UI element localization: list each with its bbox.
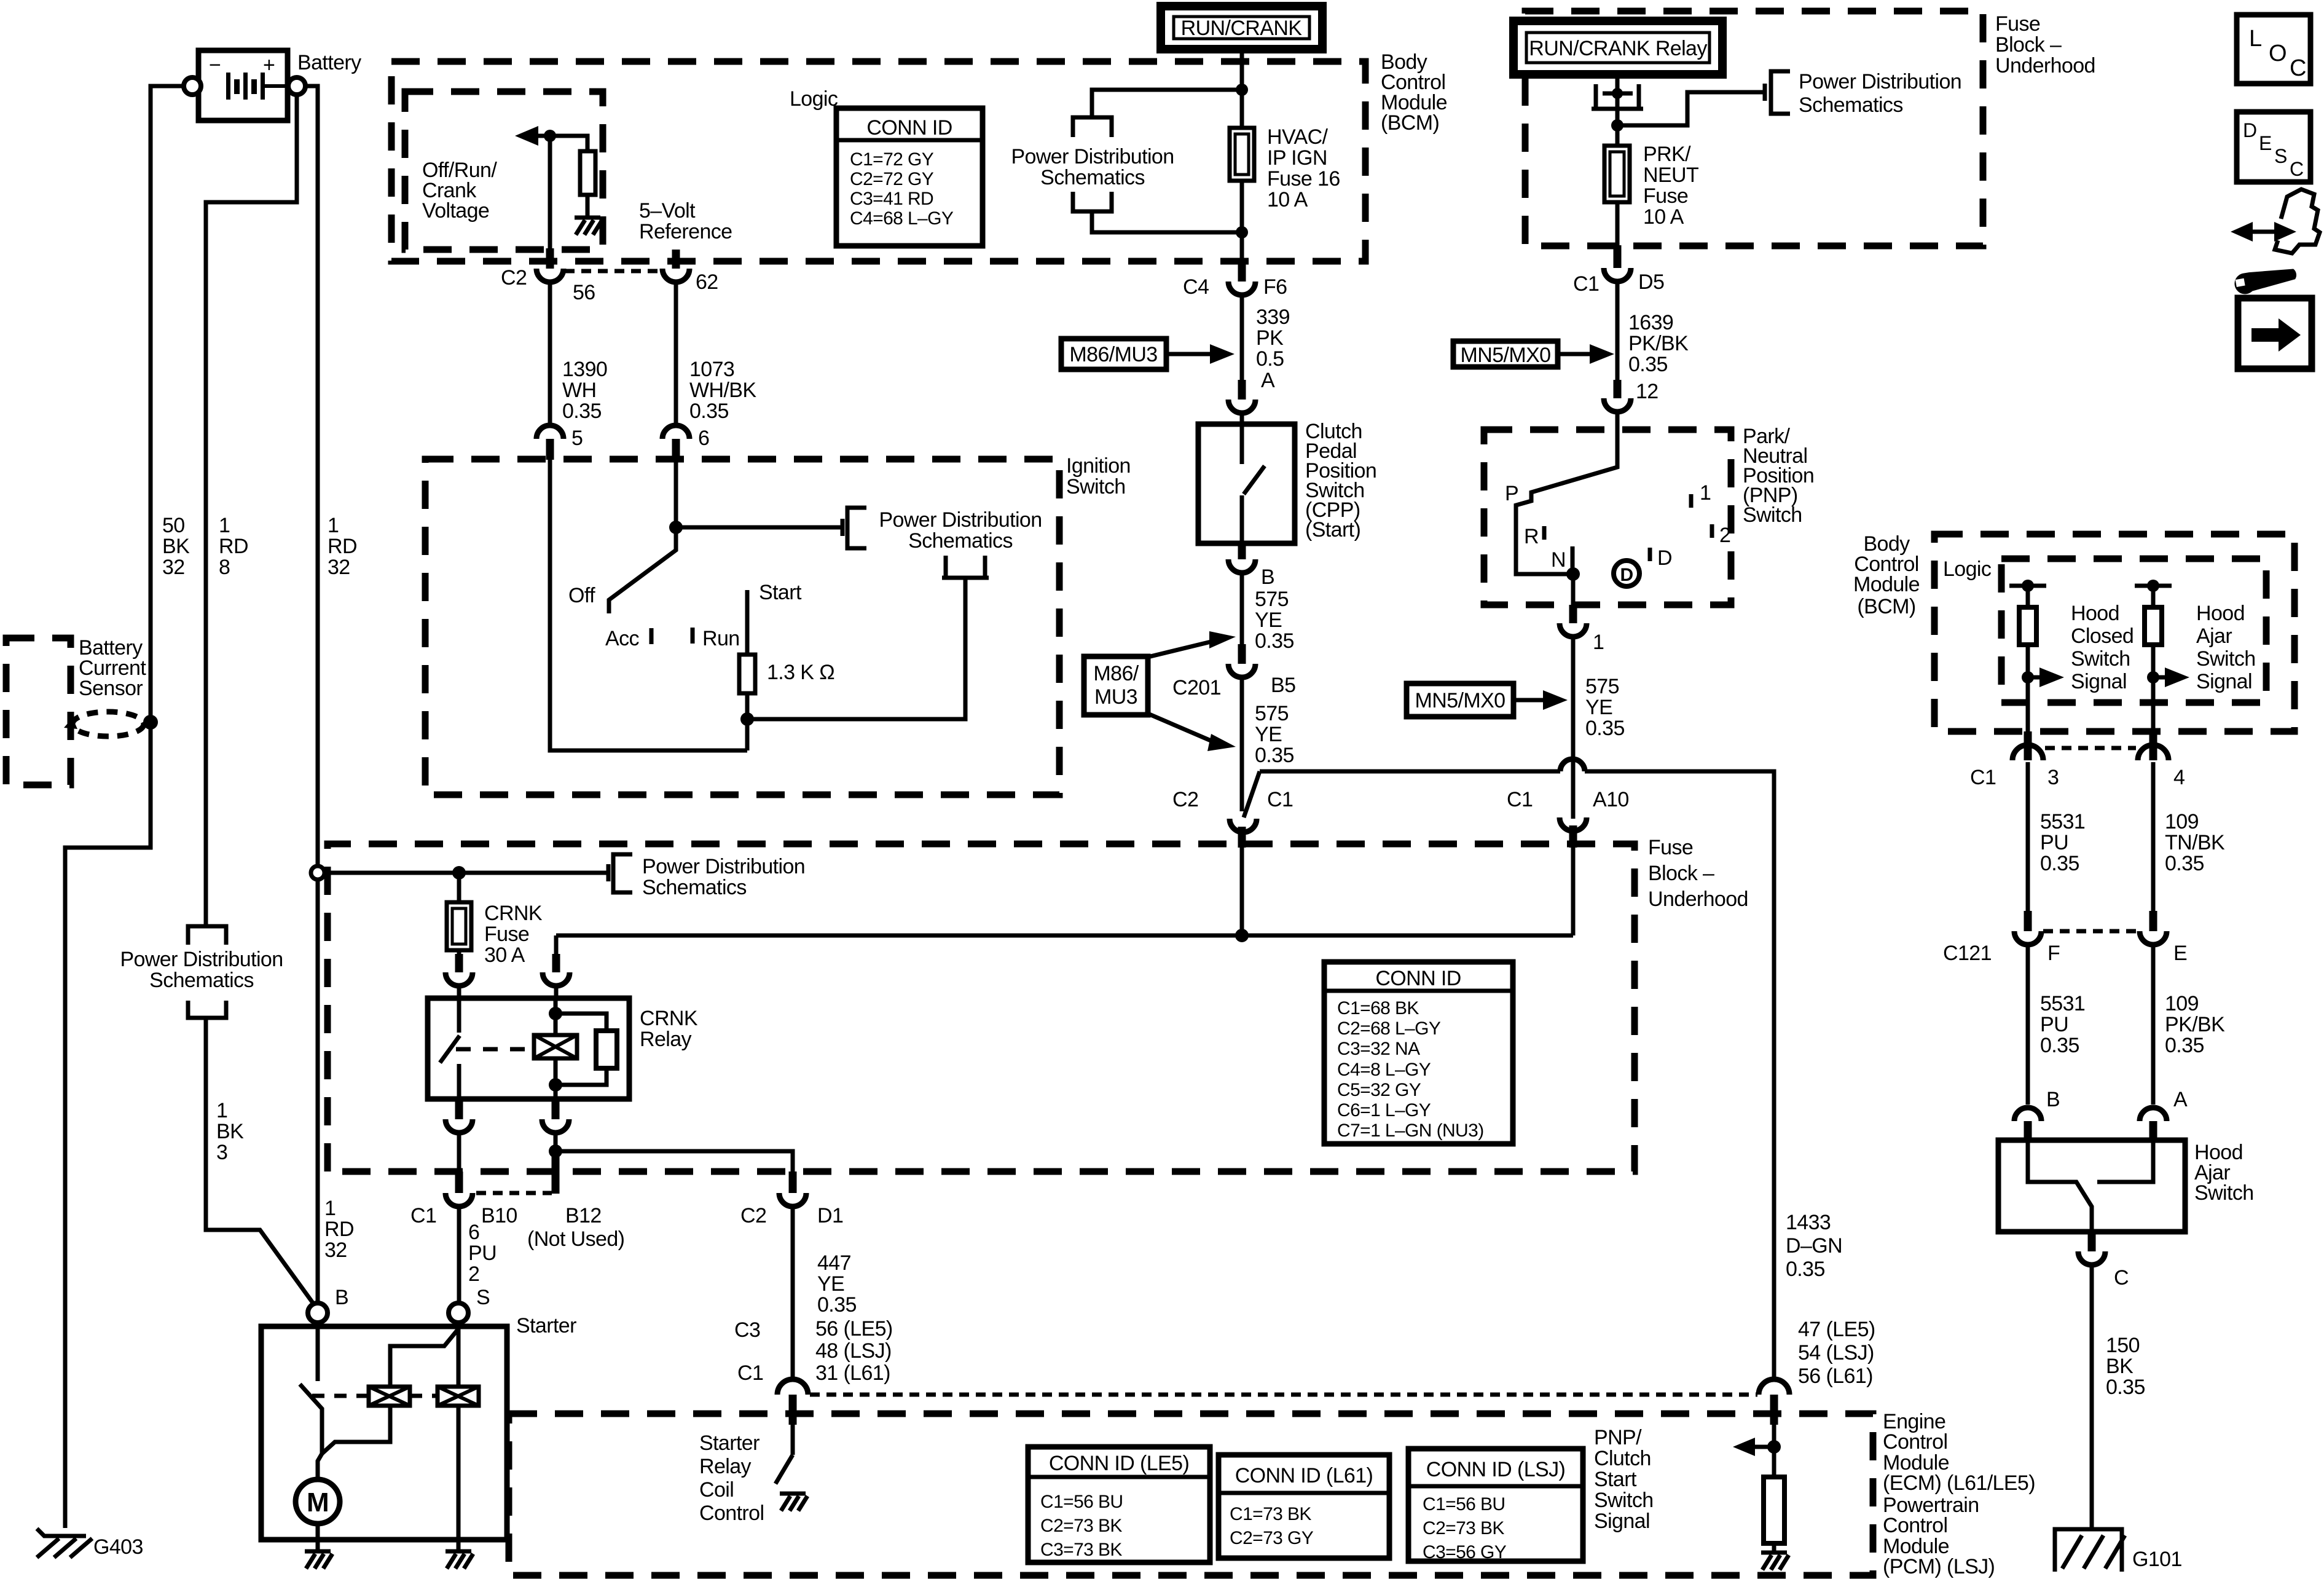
svg-text:575: 575	[1255, 588, 1289, 611]
svg-text:5531: 5531	[2040, 992, 2085, 1015]
svg-text:C1: C1	[1267, 788, 1293, 811]
svg-text:YE: YE	[817, 1272, 844, 1296]
table CONN ID LSJ	[1408, 1449, 1583, 1562]
svg-text:Start: Start	[759, 581, 802, 604]
wire relay coil feed bus	[556, 934, 1573, 938]
table CONN ID BCM	[836, 108, 983, 246]
svg-text:Starter: Starter	[699, 1431, 760, 1455]
relay CRNK actuator dashes	[456, 1047, 530, 1052]
icon LOC box	[2237, 15, 2310, 84]
power distribution schematics reference BCM	[1011, 90, 1242, 232]
svg-text:Start: Start	[1594, 1468, 1637, 1491]
svg-text:Relay: Relay	[699, 1455, 752, 1478]
arrow M86/MU3 to B5	[1148, 714, 1236, 751]
svg-text:E: E	[2259, 132, 2272, 154]
svg-text:Starter: Starter	[516, 1314, 576, 1337]
node relay coil top	[549, 1007, 562, 1020]
svg-text:1.3 K Ω: 1.3 K Ω	[767, 661, 834, 684]
contact Acc	[650, 628, 654, 644]
ground G101	[2055, 1529, 2125, 1572]
svg-text:C6=1 L–GY: C6=1 L–GY	[1337, 1100, 1431, 1120]
svg-text:F: F	[2047, 942, 2060, 965]
svg-text:C1: C1	[737, 1361, 763, 1385]
svg-text:C2=73 BK: C2=73 BK	[1423, 1518, 1504, 1538]
wire battery plus to starter B	[305, 86, 318, 1302]
svg-text:10 A: 10 A	[1267, 188, 1308, 211]
svg-text:PK: PK	[1256, 326, 1284, 350]
svg-text:Block –: Block –	[1995, 33, 2062, 57]
arrow M86/MU3 to B	[1148, 631, 1236, 657]
svg-text:Fuse: Fuse	[1648, 836, 1693, 859]
svg-text:MU3: MU3	[1094, 685, 1137, 709]
svg-text:6: 6	[698, 427, 709, 450]
svg-text:Control: Control	[1883, 1514, 1947, 1537]
svg-text:1: 1	[1593, 631, 1604, 654]
contact D	[1648, 548, 1652, 561]
svg-text:C4=8 L–GY: C4=8 L–GY	[1337, 1060, 1431, 1080]
ground 5 volt reference	[575, 218, 602, 235]
connector 62	[662, 250, 689, 282]
svg-text:C3=73 BK: C3=73 BK	[1040, 1540, 1122, 1560]
svg-text:C3: C3	[734, 1318, 760, 1342]
connector C2 C1	[1230, 819, 1257, 935]
svg-text:Power Distribution: Power Distribution	[879, 508, 1042, 532]
BCM logic inner box	[405, 92, 603, 250]
connector B cpp	[1228, 543, 1255, 644]
svg-text:C2=73 GY: C2=73 GY	[1230, 1528, 1314, 1548]
svg-text:Closed: Closed	[2071, 624, 2134, 648]
svg-text:E: E	[2173, 942, 2187, 965]
svg-text:BK: BK	[216, 1120, 244, 1143]
svg-text:2: 2	[1719, 524, 1730, 547]
svg-text:RD: RD	[328, 535, 357, 558]
svg-text:G101: G101	[2132, 1548, 2182, 1571]
dashed link B10 B12	[476, 1191, 552, 1195]
svg-text:NEUT: NEUT	[1643, 163, 1698, 187]
wire 1 BK 3	[206, 1018, 313, 1304]
svg-text:YE: YE	[1585, 696, 1612, 719]
svg-text:1639: 1639	[1628, 311, 1673, 334]
connector C hood	[2078, 1232, 2105, 1528]
stub B12 not used	[552, 1151, 560, 1194]
svg-text:M86/: M86/	[1093, 662, 1139, 685]
svg-text:BK: BK	[2106, 1355, 2134, 1378]
svg-text:1: 1	[328, 514, 339, 537]
resistor 5 volt reference	[550, 136, 595, 216]
svg-text:Hood: Hood	[2071, 602, 2119, 625]
svg-text:Module: Module	[1853, 573, 1920, 596]
svg-text:D5: D5	[1638, 270, 1664, 294]
svg-text:0.35: 0.35	[2165, 852, 2204, 875]
svg-text:R: R	[1524, 525, 1539, 548]
svg-text:RD: RD	[324, 1218, 354, 1241]
svg-text:RUN/CRANK: RUN/CRANK	[1181, 17, 1303, 40]
connector C121 E	[2140, 911, 2167, 1105]
power distribution schematics reference ignition	[842, 508, 1042, 578]
connector C1 4	[2138, 731, 2169, 911]
svg-text:Switch: Switch	[1594, 1489, 1654, 1512]
resistor hood ajar pullup	[2135, 580, 2172, 731]
svg-text:C1: C1	[1573, 272, 1599, 296]
svg-text:CONN ID (L61): CONN ID (L61)	[1235, 1464, 1373, 1487]
relay pictogram	[1592, 74, 1643, 125]
circled D indicator	[1614, 561, 1639, 586]
svg-text:2: 2	[468, 1262, 479, 1286]
svg-text:PNP/: PNP/	[1594, 1426, 1642, 1449]
dashed link F E	[2043, 929, 2138, 934]
svg-text:Voltage: Voltage	[422, 199, 489, 222]
svg-text:Signal: Signal	[1594, 1510, 1650, 1533]
wire diagonal to C2	[1244, 771, 1260, 817]
svg-text:C: C	[2114, 1266, 2129, 1290]
svg-text:Ignition: Ignition	[1066, 454, 1131, 478]
svg-text:5–Volt: 5–Volt	[639, 199, 696, 222]
power distribution schematics reference left	[120, 926, 283, 1018]
node junction logic	[544, 130, 556, 142]
svg-text:0.5: 0.5	[1256, 347, 1284, 371]
svg-text:31 (L61): 31 (L61)	[815, 1361, 890, 1385]
svg-text:50: 50	[162, 514, 185, 537]
svg-text:Run: Run	[702, 627, 740, 650]
node junction dot sensor	[143, 715, 158, 730]
ground ECM resistor	[1761, 1553, 1789, 1570]
svg-text:C1=56 BU: C1=56 BU	[1423, 1494, 1505, 1514]
dashed link 3 4	[2045, 746, 2136, 750]
svg-text:C4=68 L–GY: C4=68 L–GY	[850, 208, 954, 229]
svg-text:Power Distribution: Power Distribution	[120, 948, 283, 971]
svg-text:Switch: Switch	[1743, 503, 1802, 527]
wire motor to ground	[316, 1524, 320, 1550]
svg-text:Coil: Coil	[699, 1478, 734, 1502]
node junction PRK feed	[1611, 119, 1623, 132]
wire solenoid to ground	[457, 1406, 461, 1550]
svg-text:B: B	[335, 1286, 348, 1309]
svg-text:(Not Used): (Not Used)	[527, 1227, 624, 1251]
connector C121 F	[2014, 911, 2041, 1105]
svg-text:109: 109	[2165, 992, 2199, 1015]
svg-text:Switch: Switch	[2196, 647, 2256, 671]
svg-text:PRK/: PRK/	[1643, 143, 1691, 166]
svg-text:F6: F6	[1263, 275, 1287, 299]
svg-text:Schematics: Schematics	[1799, 93, 1903, 117]
wire resistor to PDS bracket	[747, 578, 965, 750]
icon arrow box	[2238, 298, 2312, 369]
relay CRNK K1 box	[428, 998, 629, 1099]
starter main contact	[300, 1323, 322, 1480]
svg-text:56: 56	[573, 281, 595, 304]
svg-text:C1: C1	[410, 1204, 436, 1227]
svg-text:Schematics: Schematics	[642, 876, 747, 899]
connector C1 D5	[1604, 245, 1631, 380]
svg-text:3: 3	[2047, 766, 2059, 789]
connector C1 A10	[1560, 817, 1587, 935]
svg-text:Power Distribution: Power Distribution	[642, 855, 805, 878]
svg-text:C201: C201	[1172, 676, 1221, 699]
starter motor M1	[296, 1479, 340, 1524]
arrow off run crank voltage	[515, 126, 550, 146]
connector C1 ECM left	[777, 1379, 808, 1455]
switch CPP box	[1198, 424, 1295, 543]
svg-text:D: D	[1620, 565, 1633, 585]
svg-text:48 (LSJ): 48 (LSJ)	[815, 1339, 892, 1363]
connector C1 ECM right	[1759, 1379, 1789, 1447]
BCM top box	[391, 61, 1365, 261]
svg-text:1: 1	[216, 1099, 227, 1122]
svg-text:B10: B10	[481, 1204, 517, 1227]
wire hop over pnp wire	[1560, 759, 1585, 771]
node junction bus C1	[1235, 929, 1249, 942]
wire coil output to D1	[555, 1151, 793, 1171]
svg-text:C1: C1	[1970, 766, 1996, 789]
svg-text:C2=72 GY: C2=72 GY	[850, 169, 934, 189]
svg-text:B12: B12	[565, 1204, 602, 1227]
svg-text:C1=56 BU: C1=56 BU	[1040, 1492, 1123, 1512]
svg-text:D1: D1	[817, 1204, 843, 1227]
svg-text:B: B	[2046, 1088, 2060, 1111]
svg-text:6: 6	[468, 1221, 479, 1244]
svg-text:0.35: 0.35	[2040, 1034, 2079, 1057]
node junction CRNK fuse	[452, 866, 466, 880]
svg-text:4: 4	[2173, 766, 2185, 789]
starter solenoid coil 2	[438, 1387, 479, 1406]
svg-text:M: M	[307, 1487, 329, 1518]
svg-text:Switch: Switch	[1066, 475, 1126, 498]
wire junction to PDS bracket	[676, 526, 842, 530]
svg-text:D–GN: D–GN	[1786, 1234, 1842, 1258]
svg-text:CRNK: CRNK	[484, 902, 543, 925]
svg-text:RD: RD	[219, 535, 248, 558]
starter solenoid feed from S	[390, 1323, 458, 1387]
svg-text:32: 32	[324, 1238, 347, 1262]
svg-text:MN5/MX0: MN5/MX0	[1461, 344, 1551, 367]
svg-text:B5: B5	[1271, 674, 1295, 697]
connector C1 3	[2012, 731, 2043, 911]
svg-text:P: P	[1505, 482, 1518, 505]
node junction coil output	[549, 1144, 562, 1158]
svg-text:IP IGN: IP IGN	[1267, 146, 1327, 170]
svg-text:(Start): (Start)	[1305, 518, 1360, 541]
ignition switch blade to Off	[609, 527, 676, 613]
svg-text:C2=68 L–GY: C2=68 L–GY	[1337, 1018, 1441, 1039]
RUN/CRANK Relay label box	[1513, 21, 1722, 74]
battery B+ box	[198, 50, 288, 120]
svg-text:C4: C4	[1183, 275, 1209, 299]
table CONN ID L61	[1219, 1455, 1389, 1558]
RUN/CRANK label box	[1161, 6, 1322, 49]
connector relay coil feed	[543, 935, 570, 998]
svg-text:Block –: Block –	[1648, 862, 1714, 885]
svg-text:Switch: Switch	[2194, 1181, 2254, 1205]
svg-text:12: 12	[1636, 380, 1659, 403]
fuse PRK NEUT 10A	[1604, 125, 1630, 245]
svg-text:30 A: 30 A	[484, 943, 525, 967]
svg-text:0.35: 0.35	[1585, 717, 1625, 740]
svg-text:YE: YE	[1255, 608, 1282, 632]
svg-text:S: S	[476, 1286, 490, 1309]
svg-text:56 (LE5): 56 (LE5)	[815, 1317, 893, 1341]
wire battery plus branch to power distribution	[206, 95, 297, 926]
svg-text:1390: 1390	[562, 358, 607, 381]
svg-text:(PCM) (LSJ): (PCM) (LSJ)	[1883, 1555, 1995, 1578]
svg-text:A: A	[2173, 1088, 2188, 1111]
svg-text:YE: YE	[1255, 723, 1282, 746]
svg-text:0.35: 0.35	[2040, 852, 2079, 875]
svg-text:C1: C1	[1507, 788, 1533, 811]
connector relay coil output	[542, 1100, 569, 1151]
svg-text:−: −	[209, 53, 221, 77]
svg-text:BK: BK	[162, 535, 190, 558]
svg-text:339: 339	[1256, 305, 1290, 329]
svg-text:Signal: Signal	[2071, 670, 2127, 693]
starter solenoid coil 1	[369, 1387, 410, 1406]
arrow PNP signal	[1733, 1438, 1774, 1456]
svg-text:Power Distribution: Power Distribution	[1011, 145, 1174, 168]
resistor ECM pullup	[1764, 1447, 1784, 1551]
svg-text:PU: PU	[468, 1242, 497, 1265]
resistor hood closed pullup	[2009, 580, 2046, 731]
wire logic to C2	[548, 136, 552, 248]
connector A cpp	[1228, 380, 1255, 424]
svg-text:HVAC/: HVAC/	[1267, 125, 1329, 149]
svg-text:1: 1	[219, 514, 230, 537]
svg-text:Logic: Logic	[790, 87, 838, 111]
power distribution schematics reference fuse block	[608, 854, 805, 899]
connector pin 6	[662, 282, 689, 460]
svg-text:Schematics: Schematics	[908, 529, 1013, 553]
battery terminal circle plus	[288, 77, 305, 95]
svg-text:0.35: 0.35	[1786, 1258, 1825, 1281]
svg-text:M86/MU3: M86/MU3	[1069, 343, 1157, 366]
svg-text:(BCM): (BCM)	[1381, 111, 1439, 135]
svg-text:C: C	[2290, 55, 2306, 81]
svg-text:62: 62	[696, 270, 718, 294]
svg-text:Schematics: Schematics	[1040, 166, 1145, 189]
box M86/MU3 lower	[1084, 656, 1148, 715]
battery terminal circle minus	[184, 77, 201, 95]
svg-text:N: N	[1551, 548, 1566, 572]
connector C201 B5	[1228, 644, 1255, 811]
svg-text:D: D	[1657, 546, 1672, 570]
icon DESC box	[2237, 112, 2310, 182]
arrow MN5/MX0 upper	[1558, 344, 1614, 364]
svg-text:32: 32	[162, 556, 185, 579]
svg-text:CONN ID: CONN ID	[1375, 967, 1461, 990]
ground starter relay coil control	[780, 1494, 807, 1511]
wire pnp output	[1571, 574, 1576, 605]
ignition switch box	[425, 459, 1059, 795]
relay CRNK switch	[440, 998, 460, 1099]
hood ajar switch contacts	[2028, 1142, 2153, 1232]
svg-text:Ajar: Ajar	[2196, 624, 2232, 648]
svg-text:Signal: Signal	[2196, 670, 2252, 693]
hood ajar switch S2 box	[1998, 1140, 2185, 1232]
switch CPP contacts	[1242, 424, 1265, 543]
svg-text:C121: C121	[1943, 942, 1992, 965]
svg-text:0.35: 0.35	[2165, 1034, 2204, 1057]
box MN5/MX0 upper	[1453, 341, 1558, 367]
wire off run crank inside ignition	[550, 460, 747, 750]
node junction ignition blade	[669, 521, 683, 534]
svg-text:PU: PU	[2040, 1013, 2068, 1036]
svg-text:O: O	[2269, 41, 2287, 66]
connector C1 B10	[446, 1171, 473, 1303]
svg-text:0.35: 0.35	[2106, 1376, 2145, 1399]
svg-text:C2=73 BK: C2=73 BK	[1040, 1516, 1122, 1536]
starter solenoid link	[322, 1406, 390, 1454]
svg-text:5: 5	[571, 427, 583, 450]
svg-text:(ECM) (L61/LE5): (ECM) (L61/LE5)	[1883, 1471, 2035, 1495]
svg-text:Switch: Switch	[2071, 647, 2130, 671]
fuse CRNK 30A F1	[447, 873, 471, 956]
relay CRNK coil	[534, 998, 577, 1099]
svg-text:B: B	[1261, 565, 1274, 589]
svg-text:Control: Control	[699, 1502, 764, 1525]
starter terminal B	[308, 1303, 328, 1323]
wire bus CPP to ECM	[1260, 771, 1774, 1379]
contact Run	[691, 628, 695, 644]
connector C2 56	[536, 248, 563, 282]
svg-text:C1=72 GY: C1=72 GY	[850, 149, 934, 170]
starter terminal S	[449, 1303, 468, 1323]
wire run crank main	[1240, 49, 1244, 261]
box MN5/MX0 lower	[1407, 683, 1513, 717]
node junction N output	[1566, 567, 1580, 581]
fuse HVAC IP IGN 16	[1230, 128, 1254, 181]
svg-text:MN5/MX0: MN5/MX0	[1415, 689, 1505, 712]
svg-text:Fuse: Fuse	[484, 923, 529, 946]
svg-text:C5=32 GY: C5=32 GY	[1337, 1080, 1421, 1100]
svg-text:Hood: Hood	[2196, 602, 2245, 625]
arrow M86/MU3 upper	[1166, 344, 1235, 364]
svg-text:C1=73 BK: C1=73 BK	[1230, 1504, 1311, 1524]
svg-text:C2: C2	[1172, 788, 1198, 811]
arrow MN5/MX0 lower	[1513, 690, 1568, 710]
connector pin 5	[536, 282, 563, 460]
svg-text:CRNK: CRNK	[640, 1007, 698, 1030]
svg-text:D: D	[2243, 119, 2257, 141]
contact R	[1542, 526, 1547, 540]
node junction run crank lower	[1236, 226, 1248, 238]
svg-text:S: S	[2274, 145, 2287, 167]
node junction run crank upper	[1236, 84, 1248, 96]
table CONN ID fuse block	[1324, 962, 1513, 1144]
connector A hood	[2140, 1108, 2167, 1142]
svg-text:Battery: Battery	[297, 51, 361, 74]
svg-text:CONN ID (LE5): CONN ID (LE5)	[1049, 1452, 1189, 1475]
fuse block underhood box	[328, 844, 1635, 1171]
node junction start resistor	[740, 712, 754, 726]
svg-text:C2: C2	[501, 266, 527, 289]
icon tilt wrench	[2231, 189, 2320, 296]
dashed link C1 to C1	[810, 1393, 1757, 1397]
svg-text:Fuse: Fuse	[1995, 12, 2040, 36]
svg-text:447: 447	[817, 1251, 851, 1275]
starter solenoid actuator dashes	[312, 1394, 438, 1398]
svg-text:A10: A10	[1593, 788, 1629, 811]
connector B hood	[2014, 1108, 2041, 1142]
switch starter relay coil control	[775, 1455, 793, 1484]
arrow hood ajar signal	[2147, 667, 2189, 687]
svg-text:G403: G403	[93, 1535, 143, 1559]
contact Start and resistor 1.3k	[739, 590, 755, 719]
svg-text:PK/BK: PK/BK	[2165, 1013, 2225, 1036]
connector C2 D1	[779, 1171, 806, 1380]
svg-text:1: 1	[1700, 481, 1711, 505]
svg-text:Off: Off	[568, 584, 595, 607]
svg-text:150: 150	[2106, 1334, 2140, 1357]
svg-text:Clutch: Clutch	[1594, 1447, 1651, 1470]
ground G403	[37, 1529, 86, 1536]
